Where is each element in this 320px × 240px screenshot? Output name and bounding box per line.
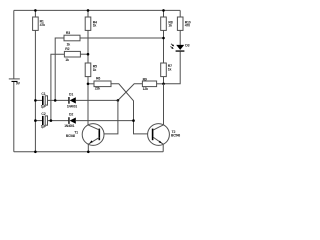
svg-text:1N4001: 1N4001 [64, 124, 74, 128]
resistor R9 12k and cross-coupling from T1 base node [118, 81, 164, 100]
capacitor C1 1uF [35, 96, 68, 105]
resistor R8 1k [161, 17, 167, 30]
node junction R2 / R4-R5 column [87, 53, 90, 56]
resistor R10 470 [177, 17, 183, 30]
svg-text:1µF: 1µF [41, 105, 46, 109]
svg-text:1N4001: 1N4001 [67, 105, 77, 109]
diode D2 1N4001 [68, 117, 133, 124]
node junction top rail / R1 [34, 9, 37, 12]
svg-text:R3: R3 [66, 31, 70, 35]
wire T1 base [100, 100, 118, 133]
svg-text:470: 470 [185, 24, 190, 28]
wire top supply rail [14, 9, 180, 11]
svg-text:D3: D3 [185, 43, 189, 47]
wire R1 branch x=35 [34, 10, 36, 151]
svg-text:1k: 1k [65, 58, 69, 62]
wire R4 branch x=88 [87, 10, 89, 125]
node junction R3 / C1-D1 line [54, 99, 57, 102]
node junction T1 emitter / bottom rail [87, 151, 90, 154]
capacitor C2 1uF [35, 116, 68, 125]
svg-text:1k: 1k [93, 24, 97, 28]
node junction T1 base net [117, 99, 120, 102]
resistor R5 1k (vertical) [85, 63, 91, 77]
svg-text:C2: C2 [41, 112, 45, 116]
resistor R6 22k and cross-coupling to T2 base [88, 81, 152, 134]
svg-text:BC548: BC548 [66, 134, 75, 138]
wire left rail (battery plus) [13, 10, 15, 78]
svg-text:1k: 1k [168, 68, 172, 72]
svg-text:R9: R9 [143, 78, 147, 82]
node junction R5 / R6 [87, 83, 90, 86]
svg-text:C1: C1 [41, 92, 45, 96]
svg-text:1µF: 1µF [41, 125, 46, 129]
node junction R7 / R9 / LED / T2 collector [162, 83, 165, 86]
resistor R4 1k [85, 17, 91, 30]
svg-text:D2: D2 [69, 112, 73, 116]
node junction R2 / C2-D2 line [50, 119, 53, 122]
transistor T1 BC548 (mirrored NPN) [82, 124, 104, 152]
resistor R3 1k (horizontal) [55, 35, 163, 100]
resistor R7 1k (vertical) [161, 63, 167, 77]
wire R8 branch x=163.5 [163, 10, 165, 83]
svg-text:1k: 1k [93, 68, 97, 72]
node junction top rail / R8 [162, 9, 165, 12]
svg-text:1k: 1k [67, 43, 71, 47]
svg-text:R6: R6 [96, 77, 100, 81]
svg-text:D1: D1 [69, 92, 73, 96]
resistor R1 47k [33, 17, 39, 30]
wire T2 collector [163, 84, 165, 125]
wire bottom rail [14, 151, 163, 153]
LED D3 [170, 44, 184, 52]
svg-text:12k: 12k [143, 87, 148, 91]
svg-text:BC548: BC548 [171, 134, 180, 138]
node junction C2 / left column [34, 119, 37, 122]
transistor T2 BC548 (NPN) [148, 124, 170, 152]
resistor R2 1k (horizontal) [51, 51, 88, 120]
diode D1 1N4001 [68, 97, 118, 104]
svg-text:1k: 1k [168, 24, 172, 28]
wire LED branch x=180.2 [164, 10, 181, 83]
svg-text:22k: 22k [95, 86, 100, 90]
node junction left column / bottom rail [34, 151, 37, 154]
node junction top rail / R4 [87, 9, 90, 12]
battery B1 9V [9, 79, 20, 152]
node junction C1 / left column [34, 99, 37, 102]
node junction R3 / R7 column [162, 37, 165, 40]
svg-text:47k: 47k [40, 23, 45, 27]
svg-text:R2: R2 [65, 47, 69, 51]
node junction D2 line / T2 base vertical [132, 119, 135, 122]
